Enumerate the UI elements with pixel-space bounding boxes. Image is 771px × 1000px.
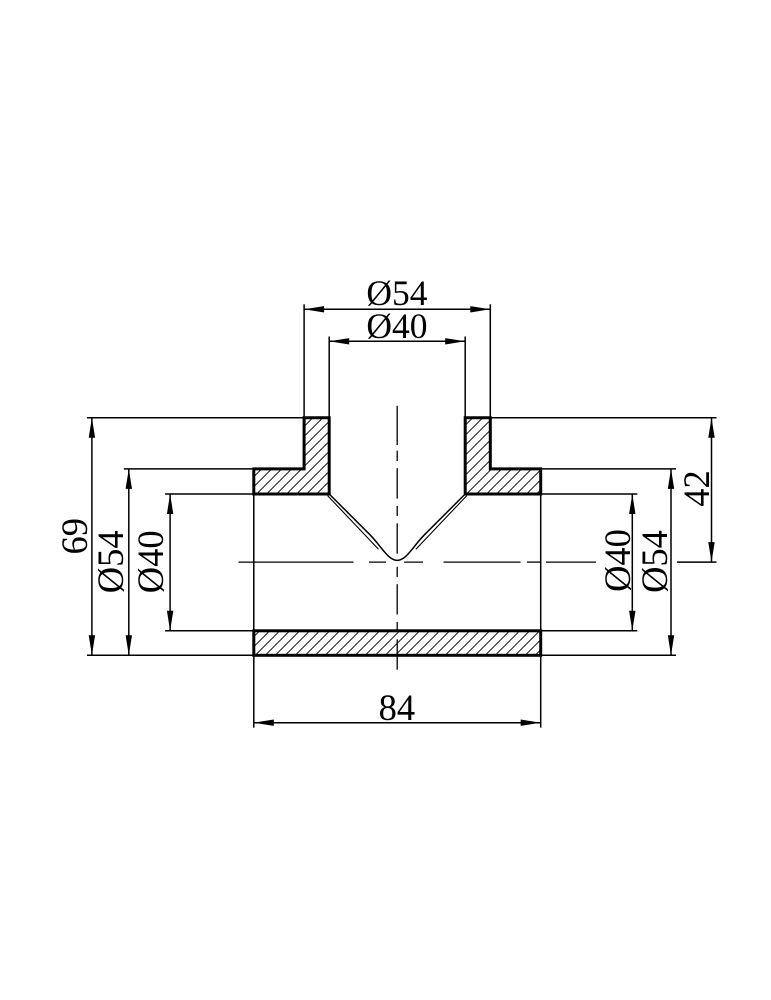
inner cone second line left bbox=[328, 496, 379, 550]
svg-text:Ø40: Ø40 bbox=[597, 529, 638, 592]
dimension 42 right: bottom arrow bbox=[708, 542, 714, 562]
dimension 84 bottom: right arrow bbox=[521, 720, 541, 726]
dimension Ø40 top: right arrow bbox=[445, 338, 465, 344]
svg-text:Ø40: Ø40 bbox=[130, 530, 171, 593]
svg-text:84: 84 bbox=[379, 687, 416, 728]
dimension 69 left: dimension line bbox=[91, 418, 93, 656]
dimension 69 left: bottom arrow bbox=[89, 635, 95, 655]
dimension Ø54 right: bottom arrow bbox=[668, 635, 674, 655]
dimension Ø40 right: dimension line bbox=[631, 494, 633, 631]
dimension Ø54 top: dimension line bbox=[304, 308, 490, 310]
left branch wall with flange (hatched section) bbox=[254, 418, 329, 494]
dimension 84 bottom: extension lines bbox=[254, 656, 541, 728]
dimension 42 right: top arrow bbox=[708, 418, 714, 438]
dimension Ø54 right: extension lines bbox=[541, 469, 676, 655]
horizontal centerline of pipe bbox=[239, 561, 597, 563]
svg-text:Ø54: Ø54 bbox=[634, 530, 675, 593]
dimension 42 right: dimension line bbox=[711, 418, 713, 562]
vertical centerline of branch bbox=[396, 406, 398, 670]
dimension Ø40 left: top arrow bbox=[167, 494, 173, 514]
dimension Ø54 left: top arrow bbox=[126, 469, 132, 489]
dimension Ø40 top: dimension line bbox=[329, 340, 465, 342]
pipe right end bore line bbox=[540, 494, 542, 631]
svg-text:Ø54: Ø54 bbox=[90, 530, 131, 593]
dimension Ø54 right: dimension line bbox=[670, 469, 672, 655]
dimension Ø54 left: bottom arrow bbox=[126, 635, 132, 655]
dimension Ø54 top: right arrow bbox=[470, 306, 490, 312]
dimension 84 bottom: dimension line bbox=[254, 722, 541, 724]
inner cone second line right bbox=[416, 496, 467, 550]
dimension Ø54 top: left arrow bbox=[304, 306, 324, 312]
dimension Ø54 right: top arrow bbox=[668, 469, 674, 489]
bottom pipe wall (hatched section) bbox=[254, 631, 541, 656]
dimension Ø40 left: bottom arrow bbox=[167, 611, 173, 631]
dimension Ø40 top: extension lines bbox=[329, 337, 465, 418]
dimension Ø54 top: extension lines bbox=[304, 304, 490, 417]
dimension 42 right: extension line top bbox=[490, 417, 716, 419]
dimension 69 left: extension lines bbox=[87, 418, 304, 656]
svg-text:69: 69 bbox=[54, 518, 95, 555]
dimension 42 right: extension segment bottom bbox=[677, 561, 717, 563]
dimension Ø40 left: dimension line bbox=[169, 494, 171, 631]
inner cone outer line bbox=[329, 494, 465, 560]
dimension Ø54 left: dimension line bbox=[128, 469, 130, 655]
dimension Ø40 right: extension lines bbox=[541, 494, 638, 631]
dimension 69 left: top arrow bbox=[89, 418, 95, 438]
svg-text:Ø40: Ø40 bbox=[366, 306, 427, 346]
pipe left end bore line bbox=[253, 494, 255, 631]
svg-text:42: 42 bbox=[676, 470, 717, 507]
dimension Ø40 right: bottom arrow bbox=[629, 611, 635, 631]
dimension Ø40 left: extension lines bbox=[165, 494, 254, 631]
dimension Ø40 top: left arrow bbox=[329, 338, 349, 344]
dimension Ø54 left: extension line top bbox=[124, 468, 254, 470]
right branch wall with flange (hatched section) bbox=[465, 418, 541, 494]
dimension 84 bottom: left arrow bbox=[254, 720, 274, 726]
dimension Ø40 right: top arrow bbox=[629, 494, 635, 514]
